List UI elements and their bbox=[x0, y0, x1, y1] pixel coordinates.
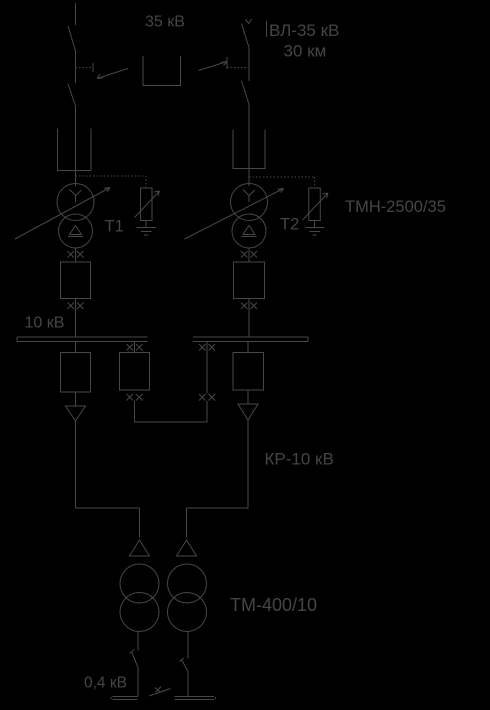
node leader tick right feeder bbox=[226, 57, 228, 69]
ground GND1 bbox=[137, 228, 157, 236]
wire W4 incoming line 2 start arrow bbox=[246, 19, 252, 24]
wire bus A to breaker Q4 bbox=[134, 342, 136, 353]
cable termination E2 bbox=[238, 404, 258, 420]
drawout contacts Q1 upper bbox=[68, 251, 84, 258]
svg-text:ТМН-2500/35: ТМН-2500/35 bbox=[345, 198, 446, 216]
wire Q2 to bus B bbox=[248, 299, 250, 338]
wire T4 to switch S2 bbox=[187, 632, 189, 659]
transformer T1 OLTC arrow bbox=[15, 188, 110, 240]
busbar B (10 kV section 2) bbox=[193, 337, 308, 342]
transformer T1 HV winding bbox=[57, 184, 94, 221]
arrester FV2 bbox=[309, 188, 321, 221]
arrester FV1 bbox=[141, 188, 153, 221]
svg-text:30 км: 30 км bbox=[284, 42, 327, 61]
wire T1 to breaker Q1 bbox=[75, 248, 77, 262]
node leader tick left feeder bbox=[92, 63, 94, 72]
busbar C (0.4 kV left) bbox=[111, 697, 138, 700]
drawout contacts QS5 lower bbox=[199, 394, 215, 401]
transformer T2 LV winding bbox=[232, 214, 266, 248]
disconnector QS3 blade bbox=[242, 24, 250, 48]
annotation arrow to left feeder bbox=[97, 69, 128, 79]
svg-text:ТМ-400/10: ТМ-400/10 bbox=[230, 595, 317, 615]
breaker Q3 (outgoing feeder 1) bbox=[61, 353, 91, 393]
busbar D (0.4 kV right) bbox=[175, 697, 216, 700]
cable termination E1 bbox=[66, 406, 86, 421]
arrester FV2 arrow bbox=[303, 193, 329, 220]
fuse F2 (open-top box) bbox=[233, 130, 265, 169]
breaker Q2 bbox=[234, 262, 265, 299]
cable termination E3 bbox=[130, 540, 150, 556]
wire FV2 to ground bbox=[314, 221, 316, 228]
svg-text:ВЛ-35 кВ: ВЛ-35 кВ bbox=[269, 21, 339, 40]
transformer T3 LV winding bbox=[120, 593, 159, 632]
wire tap to arrester FV2 (dotted) bbox=[249, 177, 315, 188]
disconnector QS4 blade bbox=[242, 81, 250, 104]
wire W1 incoming line 1 (35 kV) bbox=[75, 3, 77, 25]
svg-text:10 кВ: 10 кВ bbox=[25, 315, 65, 332]
wire bus A to breaker Q3 bbox=[75, 342, 77, 353]
fuse F1 (open-top box) bbox=[58, 129, 92, 171]
wire Q5 to cable end bbox=[247, 390, 249, 404]
label line VL-35 kV marker bbox=[266, 21, 268, 37]
wire W3 into fuse F1 bbox=[75, 106, 77, 186]
ground GND2 bbox=[306, 228, 325, 236]
transformer T1 delta symbol bbox=[68, 226, 83, 237]
wire W5 between QS3 and QS4 bbox=[248, 48, 250, 82]
label 35 kV box (source cell) bbox=[143, 56, 181, 86]
wire T3 to switch S1 bbox=[137, 632, 139, 651]
drawout contacts QS5 upper bbox=[199, 344, 215, 351]
breaker Q4 (bus tie) bbox=[120, 353, 150, 391]
svg-text:0,4 кВ: 0,4 кВ bbox=[84, 675, 127, 692]
transformer T2 delta symbol bbox=[242, 226, 257, 237]
transformer T4 HV winding bbox=[168, 564, 207, 603]
wire T2 to breaker Q2 bbox=[248, 248, 250, 262]
svg-text:35 кВ: 35 кВ bbox=[145, 14, 185, 31]
disconnector QS1 blade bbox=[68, 26, 76, 51]
drawout contacts Q4 lower bbox=[127, 394, 143, 401]
wire tie link U bbox=[135, 401, 208, 423]
wire S2 to bus D bbox=[187, 672, 189, 697]
wire W2 between QS1 and QS2 bbox=[75, 51, 77, 83]
transformer T2 OLTC arrow bbox=[185, 189, 284, 240]
wire leader dotted left bbox=[76, 67, 94, 69]
disconnector QS2 blade bbox=[68, 84, 76, 106]
transformer T4 LV winding bbox=[168, 593, 207, 632]
svg-text:Т1: Т1 bbox=[105, 218, 124, 236]
drawout contacts Q1 lower bbox=[68, 303, 84, 310]
transformer T3 HV winding bbox=[120, 564, 159, 603]
drawout contacts Q4 upper bbox=[127, 344, 143, 351]
transformer T2 HV winding bbox=[231, 184, 268, 221]
wire cable run 1 bbox=[76, 421, 140, 538]
annotation arrow to right feeder bbox=[199, 62, 228, 71]
wire Q1 to bus A bbox=[75, 299, 77, 338]
svg-text:Т2: Т2 bbox=[280, 216, 299, 234]
wire S1 to bus C bbox=[137, 668, 139, 697]
drawout contacts Q2 upper bbox=[241, 251, 257, 258]
wire cable run 2 bbox=[187, 420, 249, 538]
switch S1 blade bbox=[130, 650, 139, 668]
wire leader dotted right bbox=[227, 67, 247, 69]
breaker Q5 (outgoing feeder 2) bbox=[233, 353, 264, 391]
switch S2 blade bbox=[180, 658, 189, 672]
svg-text:КР-10 кВ: КР-10 кВ bbox=[265, 450, 334, 469]
arrester FV1 arrow bbox=[135, 191, 160, 218]
breaker Q1 bbox=[61, 262, 91, 299]
transformer T2 wye symbol bbox=[243, 190, 255, 203]
wire Q3 to cable end bbox=[75, 392, 77, 406]
transformer T1 wye symbol bbox=[70, 190, 82, 203]
wire bus B tie branch bbox=[206, 342, 208, 394]
cable termination E4 bbox=[177, 540, 197, 556]
wire FV1 to ground bbox=[145, 221, 147, 228]
wire tap to arrester FV1 (dotted) bbox=[76, 176, 147, 188]
wire bus B to breaker Q5 bbox=[247, 342, 249, 353]
wire W6 into fuse F2 bbox=[248, 104, 250, 186]
tie switch S3 blade bbox=[149, 687, 171, 697]
busbar A (10 kV section 1) bbox=[17, 337, 148, 342]
transformer T1 LV winding bbox=[59, 214, 93, 248]
drawout contacts Q2 lower bbox=[241, 303, 257, 310]
